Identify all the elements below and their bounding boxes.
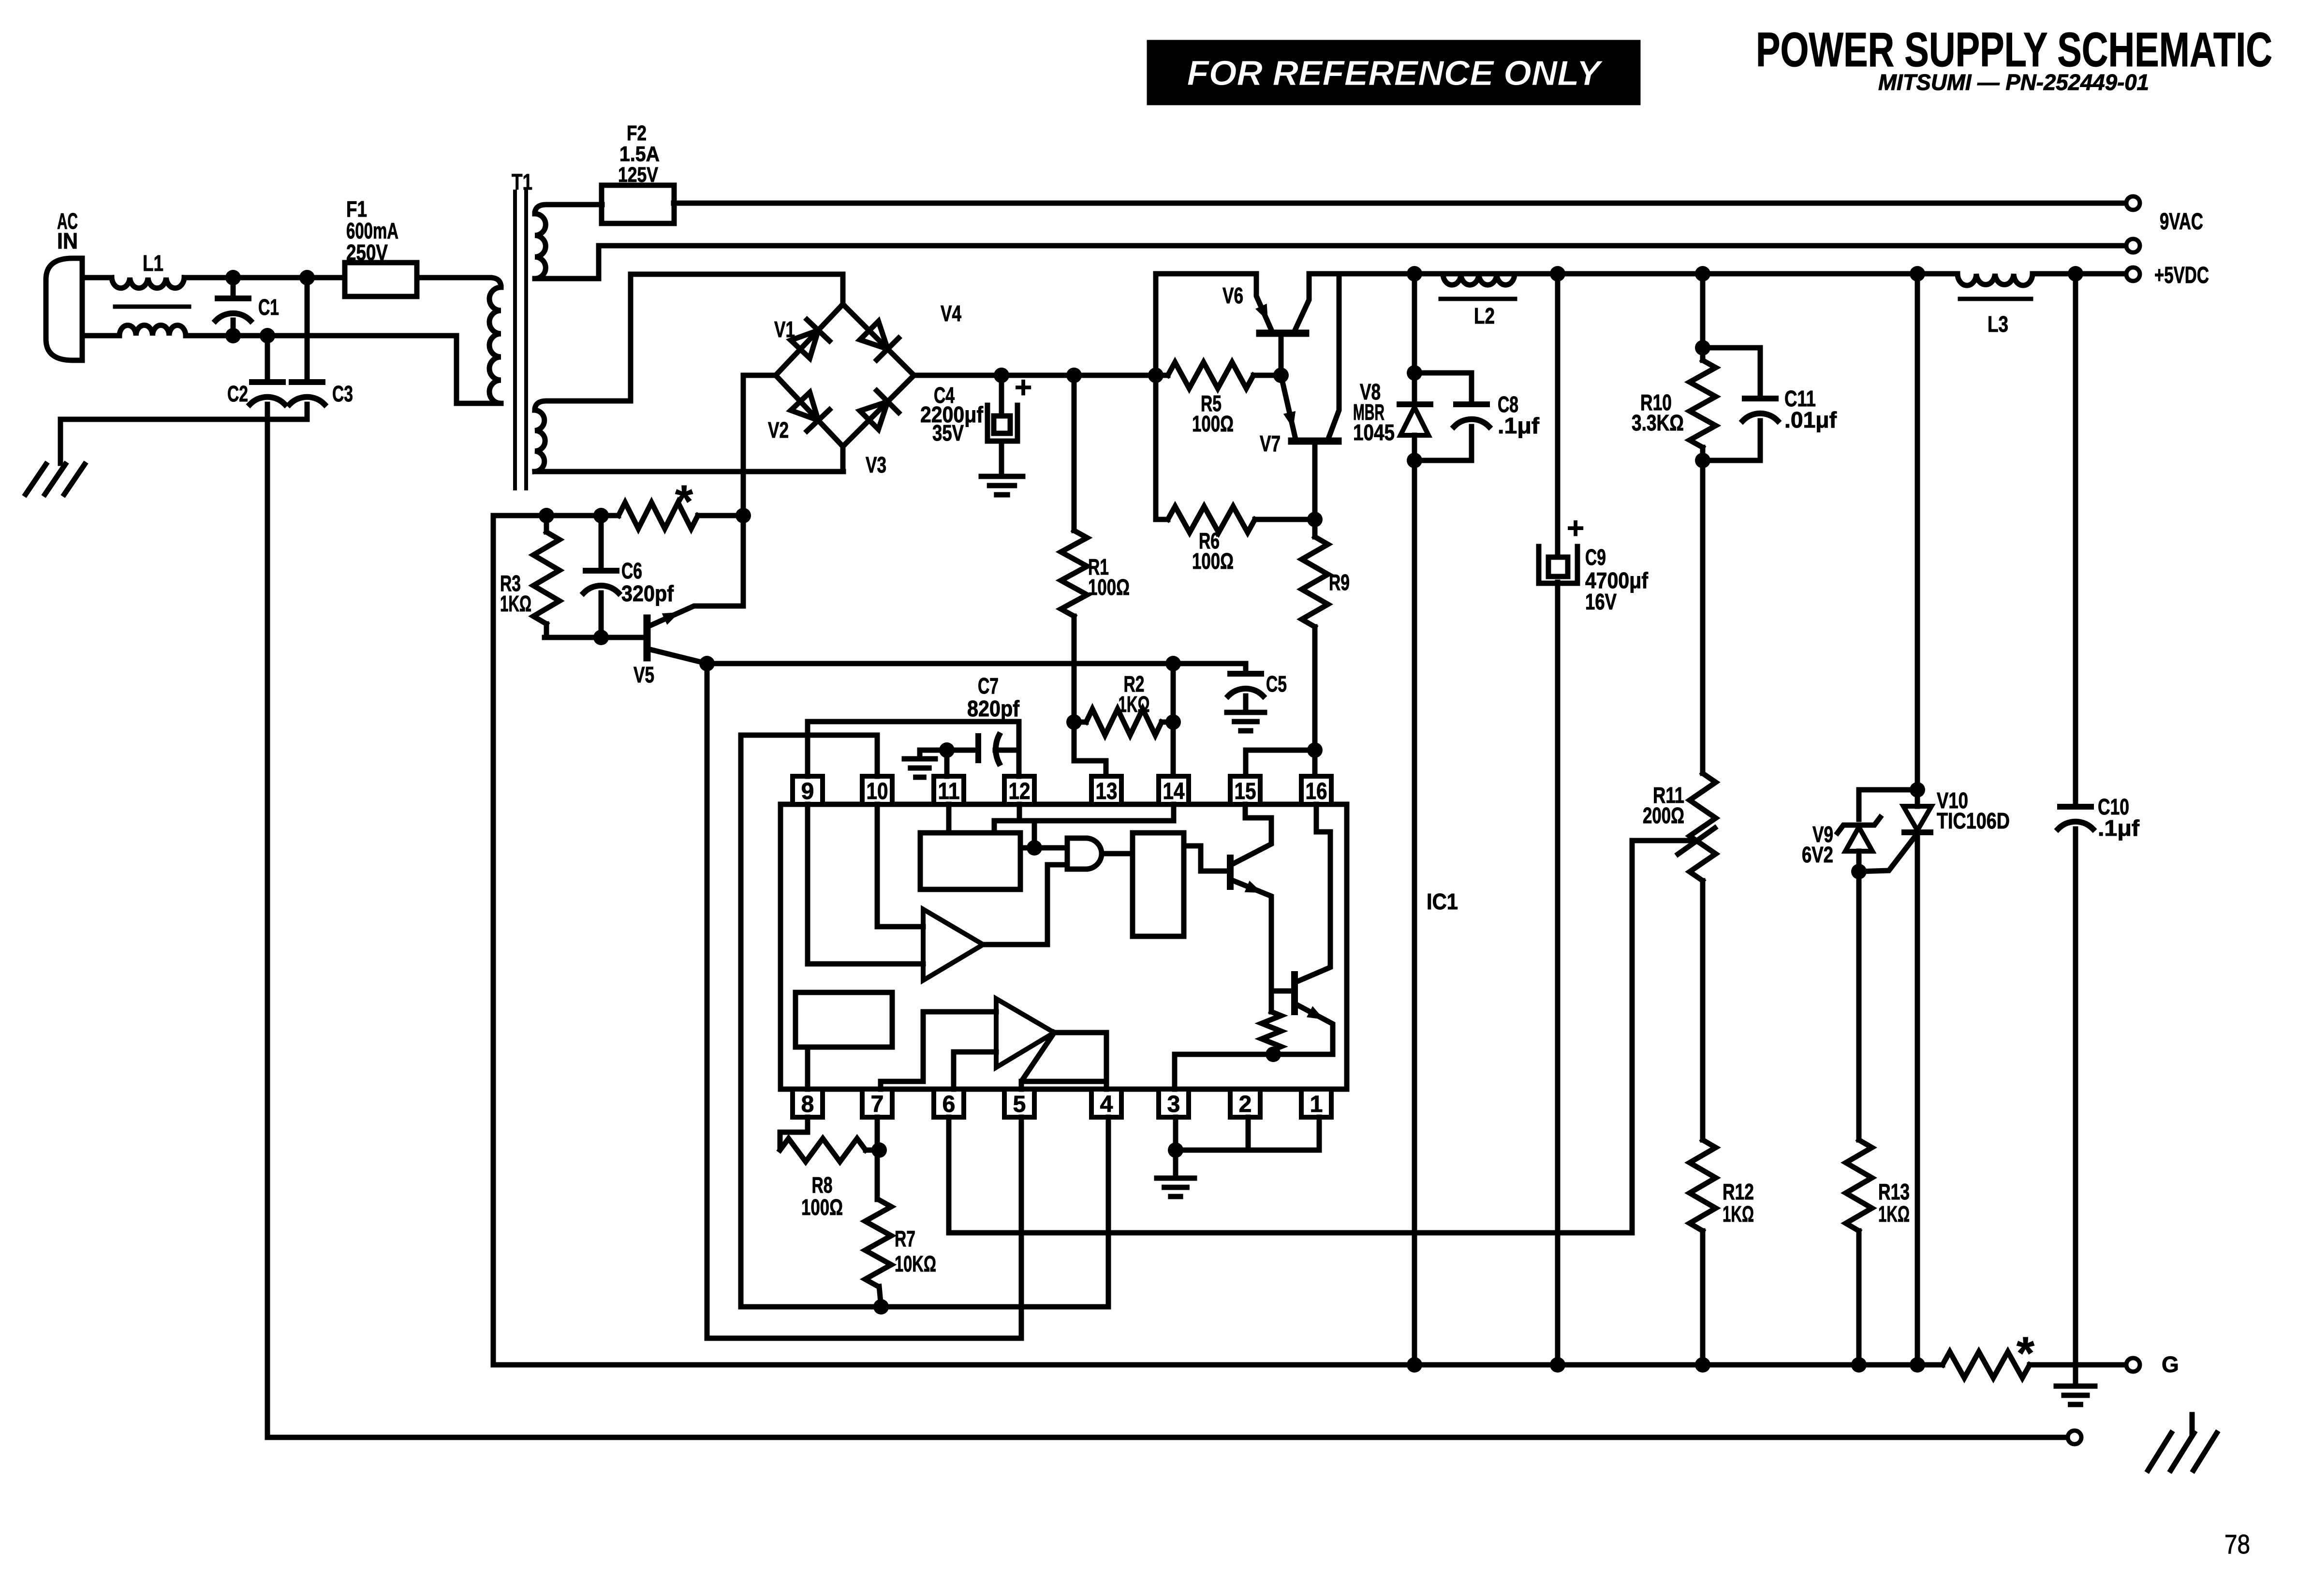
svg-text:V7: V7 bbox=[1260, 431, 1281, 456]
svg-text:V5: V5 bbox=[633, 662, 654, 687]
svg-text:8: 8 bbox=[801, 1092, 814, 1117]
svg-text:R7: R7 bbox=[895, 1226, 915, 1251]
svg-text:.01μf: .01μf bbox=[1784, 407, 1837, 432]
svg-text:IN: IN bbox=[57, 228, 78, 253]
svg-text:78: 78 bbox=[2224, 1529, 2250, 1559]
svg-text:IC1: IC1 bbox=[1427, 889, 1458, 914]
svg-text:1KΩ: 1KΩ bbox=[1119, 692, 1150, 717]
svg-text:C3: C3 bbox=[332, 381, 353, 406]
svg-text:100Ω: 100Ω bbox=[1088, 575, 1130, 600]
svg-text:+5VDC: +5VDC bbox=[2154, 263, 2209, 288]
svg-text:200Ω: 200Ω bbox=[1643, 803, 1684, 828]
svg-text:C6: C6 bbox=[621, 558, 642, 583]
svg-text:G: G bbox=[2162, 1352, 2179, 1377]
svg-text:1KΩ: 1KΩ bbox=[1723, 1201, 1754, 1227]
svg-text:11: 11 bbox=[938, 779, 960, 804]
svg-text:10KΩ: 10KΩ bbox=[895, 1251, 936, 1276]
svg-text:9: 9 bbox=[801, 779, 814, 804]
svg-text:*: * bbox=[675, 476, 693, 527]
svg-text:1KΩ: 1KΩ bbox=[500, 591, 531, 616]
svg-text:F2: F2 bbox=[627, 121, 647, 145]
svg-text:*: * bbox=[2017, 1328, 2034, 1379]
svg-text:TIC106D: TIC106D bbox=[1937, 808, 2010, 833]
svg-text:V6: V6 bbox=[1222, 283, 1243, 308]
svg-text:14: 14 bbox=[1163, 779, 1185, 804]
svg-text:12: 12 bbox=[1009, 779, 1031, 804]
svg-text:L3: L3 bbox=[1988, 311, 2008, 337]
svg-text:POWER SUPPLY SCHEMATIC: POWER SUPPLY SCHEMATIC bbox=[1756, 23, 2272, 77]
svg-text:820pf: 820pf bbox=[967, 696, 1020, 721]
svg-text:13: 13 bbox=[1096, 779, 1118, 804]
svg-text:6: 6 bbox=[942, 1092, 956, 1117]
svg-text:250V: 250V bbox=[346, 240, 388, 265]
svg-text:V4: V4 bbox=[941, 301, 961, 326]
svg-text:16V: 16V bbox=[1585, 589, 1617, 614]
svg-text:L2: L2 bbox=[1474, 303, 1495, 328]
svg-text:2: 2 bbox=[1239, 1092, 1252, 1117]
svg-text:100Ω: 100Ω bbox=[1192, 411, 1234, 436]
svg-text:6V2: 6V2 bbox=[1802, 842, 1833, 867]
svg-text:5: 5 bbox=[1013, 1092, 1026, 1117]
svg-text:100Ω: 100Ω bbox=[1192, 548, 1234, 574]
svg-text:+: + bbox=[1567, 512, 1584, 545]
svg-text:7: 7 bbox=[871, 1092, 884, 1117]
svg-text:15: 15 bbox=[1235, 779, 1256, 804]
svg-text:R13: R13 bbox=[1878, 1179, 1910, 1204]
svg-text:4: 4 bbox=[1100, 1092, 1113, 1117]
svg-text:125V: 125V bbox=[618, 163, 659, 187]
svg-text:+: + bbox=[1015, 371, 1032, 404]
svg-text:R8: R8 bbox=[812, 1172, 833, 1197]
svg-text:.1μf: .1μf bbox=[1498, 413, 1540, 438]
svg-text:320pf: 320pf bbox=[621, 581, 674, 606]
svg-text:C5: C5 bbox=[1266, 671, 1287, 696]
svg-text:C2: C2 bbox=[227, 381, 248, 406]
svg-text:100Ω: 100Ω bbox=[801, 1195, 843, 1220]
svg-text:V3: V3 bbox=[866, 452, 886, 477]
svg-text:9VAC: 9VAC bbox=[2160, 209, 2203, 235]
svg-text:R12: R12 bbox=[1723, 1179, 1754, 1204]
svg-text:1.5A: 1.5A bbox=[619, 142, 660, 166]
svg-text:16: 16 bbox=[1306, 779, 1327, 804]
svg-text:V2: V2 bbox=[768, 417, 789, 443]
svg-text:3.3KΩ: 3.3KΩ bbox=[1632, 410, 1684, 435]
svg-text:L1: L1 bbox=[143, 251, 163, 276]
svg-text:1045: 1045 bbox=[1353, 420, 1395, 445]
svg-text:C1: C1 bbox=[258, 295, 279, 320]
svg-text:1: 1 bbox=[1310, 1092, 1323, 1117]
svg-text:MITSUMI — PN-252449-01: MITSUMI — PN-252449-01 bbox=[1878, 70, 2149, 95]
svg-text:35V: 35V bbox=[932, 420, 964, 445]
svg-text:C7: C7 bbox=[978, 673, 999, 698]
svg-text:V1: V1 bbox=[774, 317, 795, 342]
svg-text:R9: R9 bbox=[1329, 570, 1350, 595]
svg-text:10: 10 bbox=[867, 779, 888, 804]
svg-text:1KΩ: 1KΩ bbox=[1878, 1201, 1910, 1227]
svg-text:.1μf: .1μf bbox=[2098, 815, 2140, 841]
svg-text:3: 3 bbox=[1167, 1092, 1180, 1117]
svg-text:C9: C9 bbox=[1585, 545, 1606, 570]
svg-text:FOR REFERENCE ONLY: FOR REFERENCE ONLY bbox=[1187, 54, 1604, 93]
